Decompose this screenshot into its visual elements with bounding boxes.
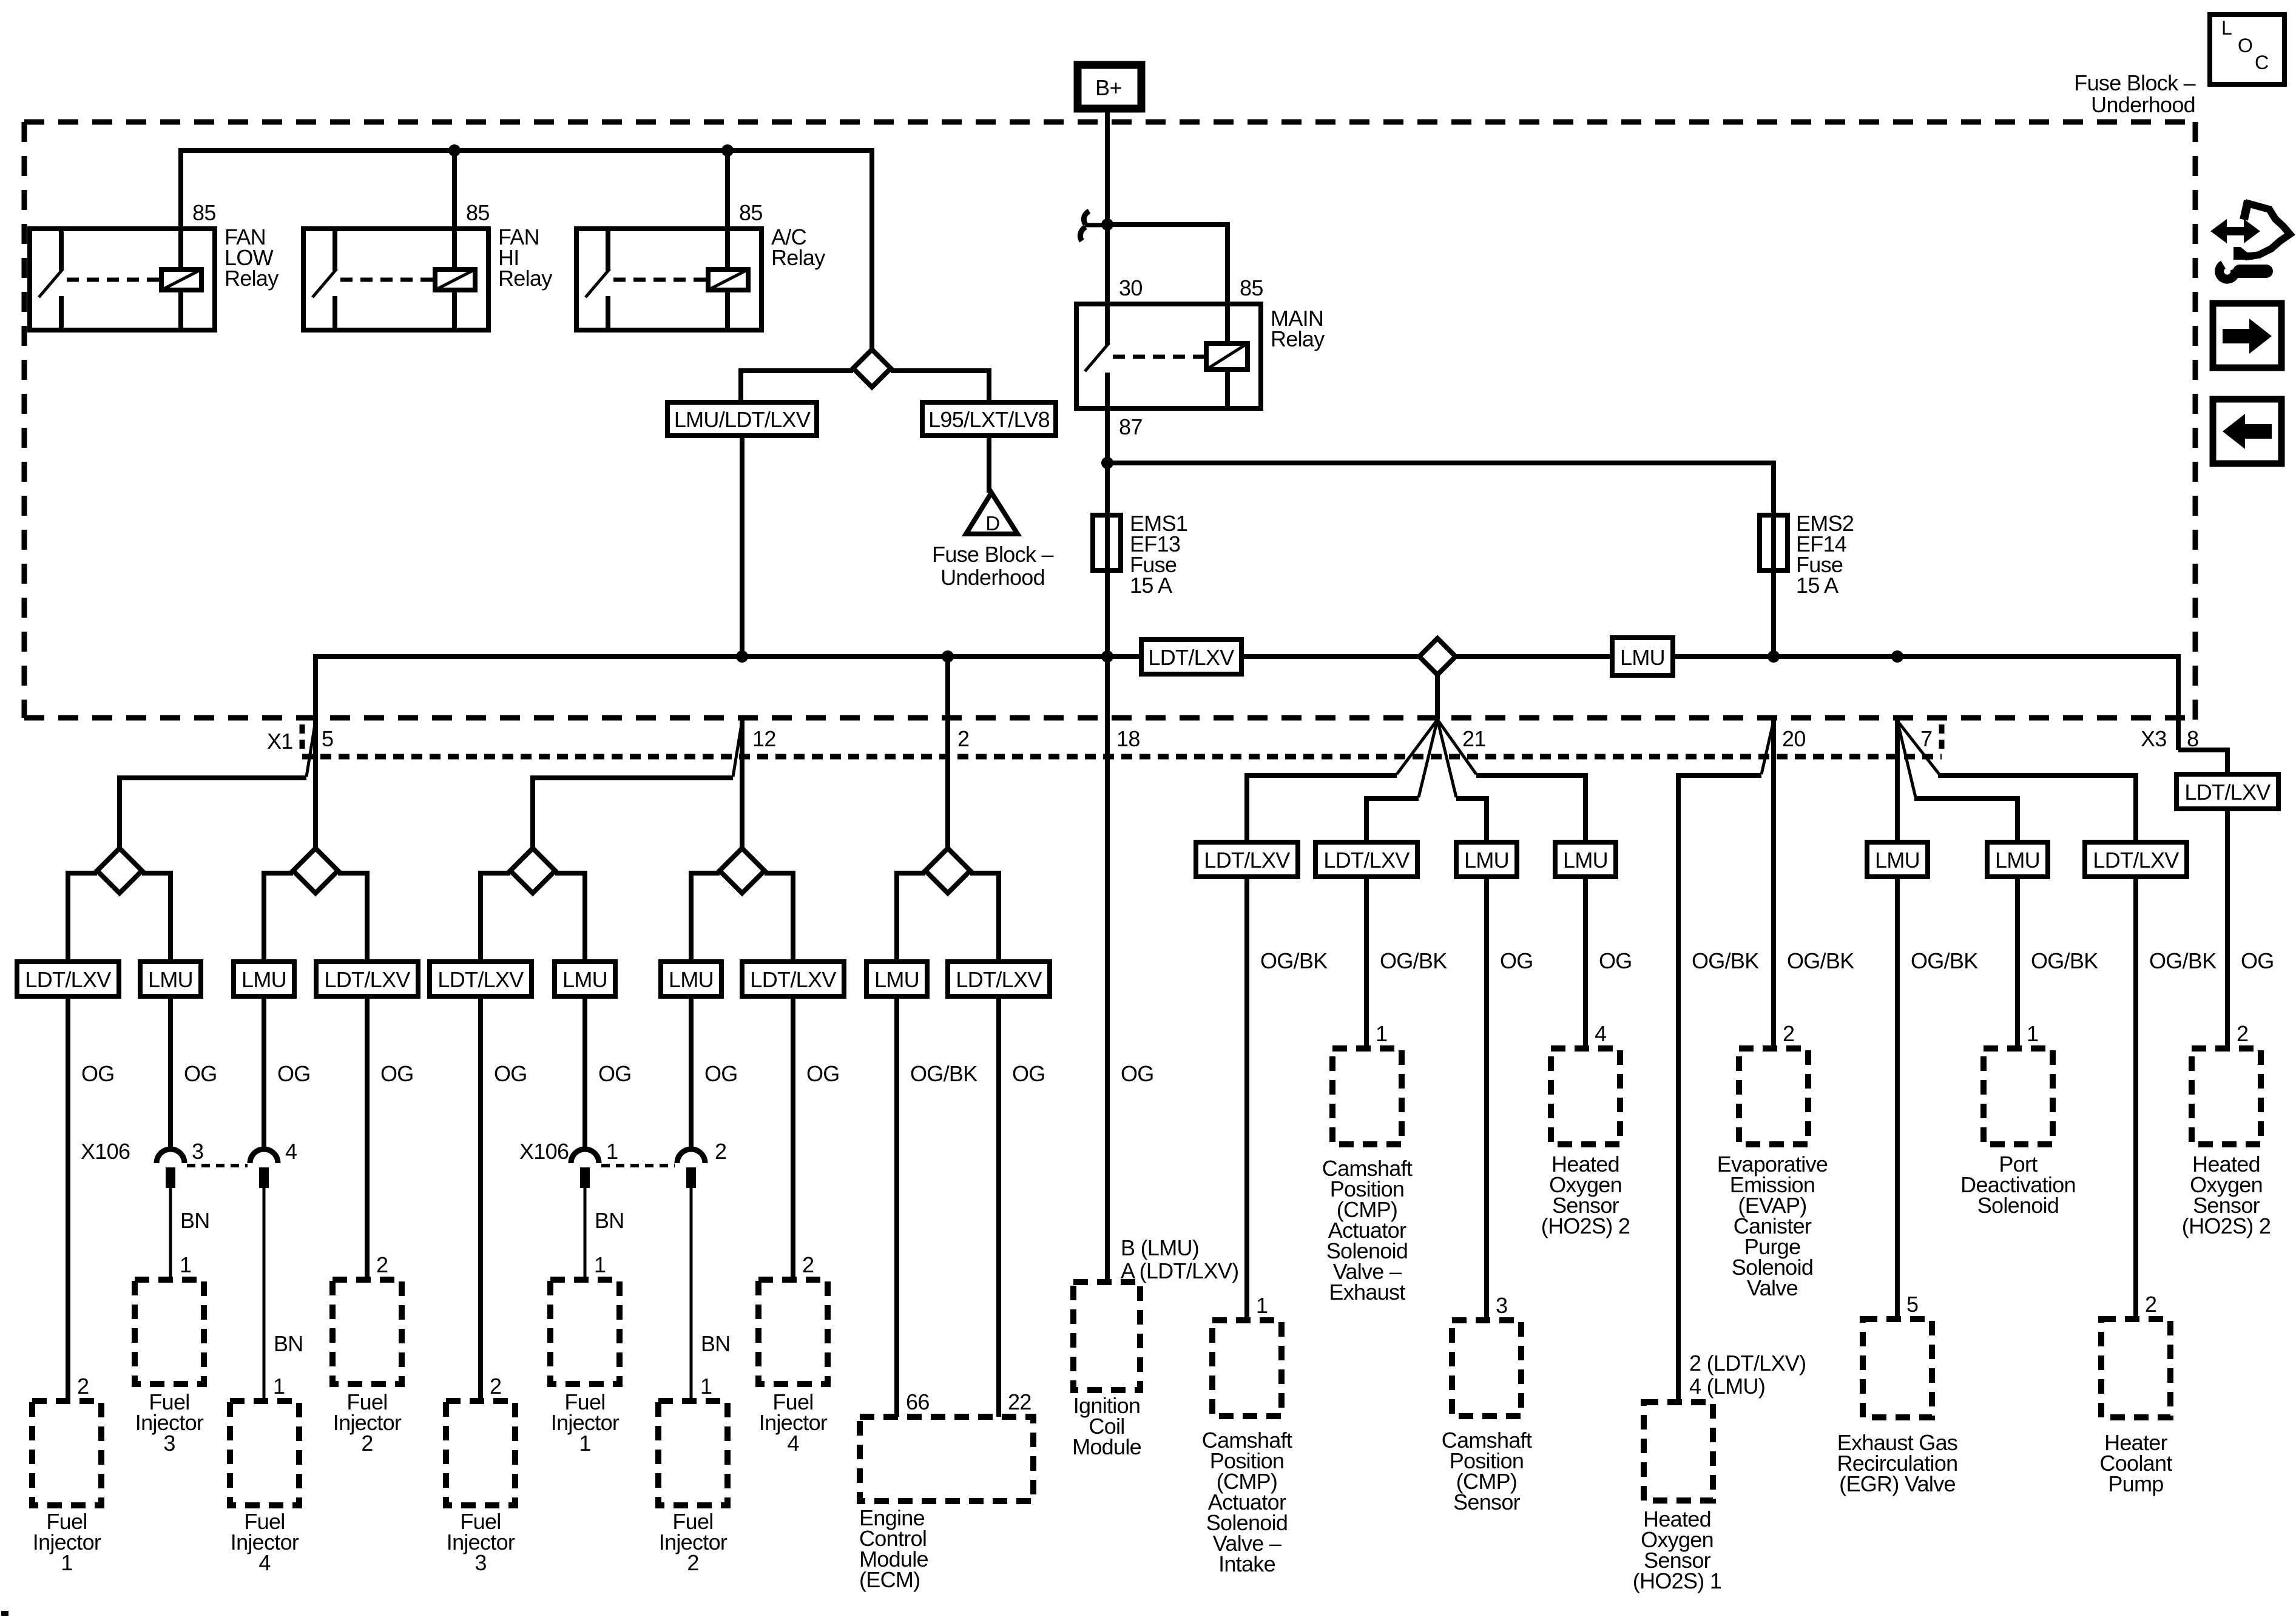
component Fuel Injector 2 (lower) [658,1401,728,1575]
svg-text:LDT/LXV: LDT/LXV [1148,645,1234,670]
wire: pin 20 drop to EVAP [1771,719,1776,1048]
wire: branch 87 to fuse EMS2 [1107,463,1774,515]
svg-text:C: C [2255,52,2268,73]
wire: pin 21 fan-out branch 3 (CMP sensor) [1437,720,1487,842]
wire OG/BK to Port Deactivation [2017,877,2098,1048]
component Fuel Injector 1 (upper) [550,1280,620,1456]
svg-text:12: 12 [752,726,776,751]
svg-text:LDT/LXV: LDT/LXV [25,967,111,992]
net label L95/LXT/LV8 [922,402,1056,436]
component Fuel Injector 2 [333,1252,402,1456]
svg-text:OG/BK: OG/BK [1787,948,1854,973]
svg-text:LMU: LMU [1620,645,1665,670]
svg-text:3: 3 [192,1139,203,1164]
svg-text:Relay: Relay [498,266,552,291]
wire: pin 5 drop to diamond group 2 [313,719,318,848]
net label LMU/LDT/LXV [667,402,817,436]
svg-text:X3: X3 [2141,726,2167,751]
component Fuel Injector 3 [135,1280,204,1456]
svg-text:1: 1 [180,1252,191,1277]
svg-text:(HO2S) 2: (HO2S) 2 [1541,1214,1630,1238]
svg-text:B (LMU): B (LMU) [1121,1235,1199,1260]
off-page triangle D (Fuse Block - Underhood) [932,493,1053,590]
node: bus junction EMS1/pin 18 [1101,650,1113,663]
wire: pin 18 drop to ignition coil module [1105,657,1110,1282]
fuse EMS2 EF14 15A [1760,511,1854,598]
wire: FAN HI relay pin 85 drop [452,150,457,231]
svg-text:8: 8 [2187,726,2198,751]
wire: L95 box to triangle D [987,436,991,493]
net label LMU (inj3) [140,962,201,996]
node: bus junction pin 7 [1891,650,1903,663]
component Camshaft Position (CMP) Actuator Solenoid Valve - Intake [1202,1320,1292,1576]
net label LMU (inj4) [234,962,294,996]
wire: pin 12 branch to diamond group 3 [533,721,742,848]
svg-text:LDT/LXV: LDT/LXV [956,967,1042,992]
svg-text:2: 2 [802,1252,814,1277]
svg-text:Solenoid: Solenoid [1977,1193,2059,1218]
svg-text:85: 85 [739,200,763,225]
net label LDT/LXV (inj4 upper) [742,962,844,996]
net label LDT/LXV (inj3 lower) [430,962,532,996]
svg-text:4: 4 [787,1431,799,1456]
svg-text:BN: BN [595,1208,624,1233]
svg-text:OG/BK: OG/BK [1911,948,1978,973]
svg-text:OG/BK: OG/BK [910,1061,977,1086]
fuse EMS1 EF13 15A [1093,511,1187,598]
net label LMU (CMP sensor) [1456,842,1517,877]
svg-text:Relay: Relay [1271,326,1325,351]
corner period mark [1,1611,8,1616]
wire: pin 21 fan-out branch 2 (CMP exhaust) [1366,720,1437,842]
svg-text:2: 2 [490,1374,501,1399]
svg-text:LMU: LMU [241,967,286,992]
node: junction top wire / FAN HI 85 [448,144,461,157]
svg-text:5: 5 [322,726,333,751]
svg-text:1: 1 [1256,1293,1268,1318]
svg-text:1: 1 [700,1374,712,1399]
connector row X1-X3 lower dashed line [302,754,1942,760]
svg-text:21: 21 [1462,726,1486,751]
svg-text:LDT/LXV: LDT/LXV [1323,848,1410,873]
wire OG to Fuel Injector 1 [66,996,70,1401]
component Port Deactivation Solenoid [1960,1048,2076,1218]
connector X106 (injectors 1/2) [519,1139,726,1188]
net label LMU (ECM) [866,962,927,996]
wire OG/BK to ECM pin 66 [894,996,899,1417]
wire: pin 12 drop to diamond group 4 [740,719,745,848]
svg-text:OG/BK: OG/BK [1692,948,1759,973]
node: junction B+ / MAIN 85 branch [1101,218,1113,231]
svg-text:66: 66 [906,1389,930,1414]
svg-text:BN: BN [701,1331,731,1356]
component Evaporative Emission (EVAP) Canister Purge Solenoid Valve [1717,1048,1828,1300]
component Fuel Injector 4 (upper) [758,1252,828,1456]
svg-text:X1: X1 [267,729,293,754]
svg-text:20: 20 [1782,726,1806,751]
svg-text:L95/LXT/LV8: L95/LXT/LV8 [928,407,1050,432]
wire: pin 7 branch to Port Deactivation Solenoid [1897,721,2017,842]
wire OG to HO2S 2 (right) [2227,809,2274,1048]
wire OG to X106 pin 4 [262,996,266,1148]
svg-text:2: 2 [715,1139,726,1164]
svg-text:3: 3 [474,1550,486,1575]
wire BN X106-2 to Fuel Injector 2 pin 1 [691,1188,731,1401]
inline connector hook at B+ feed [1085,223,1107,228]
svg-text:87: 87 [1119,414,1143,439]
svg-text:Pump: Pump [2108,1471,2163,1496]
svg-text:7: 7 [1920,726,1932,751]
svg-text:2 (LDT/LXV): 2 (LDT/LXV) [1689,1351,1806,1376]
svg-text:1: 1 [579,1431,590,1456]
svg-text:A (LDT/LXV): A (LDT/LXV) [1121,1258,1238,1283]
net label LMU (HO2S 2) [1555,842,1616,877]
svg-text:5: 5 [1906,1292,1918,1317]
wire OG to CMP sensor [1487,877,1533,1320]
component Heater Coolant Pump [2099,1319,2172,1496]
splice diamond group 3 [481,848,585,962]
main ignition feed bus [316,657,2178,750]
svg-text:LMU: LMU [874,967,919,992]
node: bus junction EMS2/pin 20 [1768,650,1780,663]
splice diamond group 2 [264,848,367,962]
svg-text:OG/BK: OG/BK [1380,948,1447,973]
svg-text:OG: OG [380,1061,414,1086]
svg-text:85: 85 [1240,275,1263,300]
svg-text:30: 30 [1119,275,1143,300]
component Heated Oxygen Sensor (HO2S) 1 [1633,1402,1721,1593]
wire OG/BK to EVAP [1783,948,1854,1046]
net label LMU on bus [1612,638,1673,675]
component Exhaust Gas Recirculation (EGR) Valve [1837,1319,1958,1496]
svg-text:OG: OG [1599,948,1632,973]
net label LDT/LXV (pin 8) [2176,774,2278,809]
svg-text:LMU/LDT/LXV: LMU/LDT/LXV [674,407,811,432]
svg-text:1: 1 [2027,1021,2038,1046]
svg-text:1: 1 [273,1374,285,1399]
net label LDT/LXV (ECM) [948,962,1050,996]
svg-text:OG: OG [184,1061,217,1086]
svg-text:LDT/LXV: LDT/LXV [750,967,836,992]
wire OG to X106 pin 3 [168,996,173,1148]
net label LMU (inj1 upper) [555,962,615,996]
svg-text:LMU: LMU [1995,848,2040,873]
svg-text:OG/BK: OG/BK [2149,948,2217,973]
wire OG/BK to CMP intake [1247,877,1328,1320]
svg-text:LDT/LXV: LDT/LXV [324,967,410,992]
svg-text:4: 4 [1595,1021,1606,1046]
svg-text:LDT/LXV: LDT/LXV [2184,780,2271,805]
wire: pin 20 branch to HO2S 1 [1678,721,1774,1402]
svg-text:4 (LMU): 4 (LMU) [1689,1374,1765,1399]
svg-text:Valve: Valve [1747,1275,1798,1300]
svg-text:4: 4 [285,1139,297,1164]
node: junction 87 / EMS2 branch [1101,457,1113,469]
svg-text:LMU: LMU [1875,848,1920,873]
svg-text:Underhood: Underhood [940,565,1045,590]
wire: B+ to MAIN relay pin 30 [1105,109,1110,304]
wire: branch to MAIN relay pin 85 [1107,224,1227,304]
svg-text:LDT/LXV: LDT/LXV [437,967,524,992]
net label LMU (Port Deactivation) [1987,842,2048,877]
relay K4 MAIN Relay [1076,275,1325,439]
svg-text:2: 2 [1783,1021,1794,1046]
svg-text:15 A: 15 A [1796,573,1838,598]
svg-text:LMU: LMU [1464,848,1509,873]
svg-text:18: 18 [1116,726,1140,751]
svg-text:Relay: Relay [225,266,279,291]
svg-text:LMU: LMU [148,967,193,992]
svg-text:X106: X106 [519,1139,569,1164]
wire OG to X106 pin 1 [582,996,587,1148]
svg-text:LMU: LMU [669,967,714,992]
svg-text:BN: BN [274,1331,303,1356]
svg-text:Exhaust: Exhaust [1329,1280,1405,1305]
svg-text:X106: X106 [81,1139,130,1164]
service icon (double arrow and wrench) [2210,201,2290,279]
wire BN X106-4 to Fuel Injector 4 pin 1 [264,1188,303,1401]
svg-text:Sensor: Sensor [1453,1490,1521,1514]
wire OG to X106 pin 2 [689,996,694,1148]
wire: pin 7 branch to Heater Coolant Pump [1897,721,2136,842]
svg-text:3: 3 [163,1431,175,1456]
svg-text:85: 85 [192,200,216,225]
svg-text:85: 85 [466,200,490,225]
wire OG to Fuel Injector 2 [365,996,370,1280]
svg-text:2: 2 [376,1252,388,1277]
wire: pin 7 drop to EGR [1895,719,1900,842]
svg-text:4: 4 [258,1550,270,1575]
svg-text:1: 1 [1376,1021,1387,1046]
wire: pin 2 drop to diamond group 5 [945,657,950,848]
wire OG to ECM pin 22 [996,996,1001,1417]
svg-text:D: D [985,512,999,535]
svg-text:Underhood: Underhood [2091,92,2195,117]
svg-text:(HO2S) 1: (HO2S) 1 [1633,1568,1721,1593]
svg-text:LMU: LMU [1563,848,1608,873]
wire OG/BK to HO2S 1 [1689,948,1806,1399]
svg-text:OG: OG [598,1061,632,1086]
component Ignition Coil Module [1072,1235,1238,1459]
svg-text:1: 1 [61,1550,72,1575]
svg-text:OG/BK: OG/BK [1260,948,1328,973]
component Fuel Injector 4 [230,1401,299,1575]
relay K2 FAN HI Relay [303,200,552,330]
Fuse Block - Underhood dashed enclosure [24,122,2196,720]
splice diamond group 4 [691,848,793,962]
wire: EMS1 to bus [1105,570,1110,657]
wire OG to Fuel Injector 4 (upper) [791,996,795,1280]
svg-text:3: 3 [1496,1293,1507,1318]
svg-text:OG: OG [2241,948,2274,973]
LOC legend box [2210,15,2284,84]
wire: EMS2 to bus [1771,570,1776,657]
relay K1 FAN LOW Relay [30,200,279,330]
svg-text:2: 2 [687,1550,698,1575]
node: junction top wire / AC 85 [721,144,734,157]
net label LDT/LXV (Heater Coolant Pump) [2085,842,2187,877]
wire: A/C relay pin 85 drop [725,150,730,231]
svg-text:22: 22 [1008,1389,1032,1414]
splice diamond group 1 [68,848,171,962]
wire OG to Fuel Injector 3 (lower) [478,996,483,1401]
svg-text:OG: OG [277,1061,311,1086]
svg-text:(ECM): (ECM) [859,1567,920,1592]
previous-page arrow box (left) [2213,399,2281,464]
net label LDT/LXV on bus [1141,640,1241,674]
svg-text:OG: OG [1500,948,1533,973]
net label LDT/LXV (inj2) [316,962,418,996]
node: bus junction pin 2 feed [942,650,954,663]
net label LDT/LXV (inj1) [17,962,119,996]
svg-text:Intake: Intake [1218,1551,1275,1576]
svg-text:LMU: LMU [562,967,607,992]
svg-text:Module: Module [1072,1434,1141,1459]
svg-text:OG: OG [1012,1061,1045,1086]
svg-text:LDT/LXV: LDT/LXV [2093,848,2179,873]
svg-text:2: 2 [77,1374,89,1399]
wire: pin 8 jog to LDT/LXV [2178,750,2227,774]
svg-text:2: 2 [2237,1021,2248,1046]
component Heated Oxygen Sensor (HO2S) 2 (right) [2182,1048,2271,1238]
splice diamond group 5 (ECM) [897,848,999,962]
net label LDT/LXV (CMP exhaust) [1315,842,1417,877]
svg-text:Fuse Block –: Fuse Block – [2074,70,2195,95]
wire: pin 21 fan-out branch 1 (CMP intake) [1247,720,1437,842]
svg-text:LDT/LXV: LDT/LXV [1204,848,1290,873]
wire: LMU/LDT/LXV box to bus [740,436,745,657]
wire: pin 21 fan-out branch 4 (HO2S 2) [1437,720,1585,842]
wire BN X106-1 to Fuel Injector 1 pin 1 [585,1188,624,1280]
node: bus junction pin 12 feed [736,650,748,663]
component Camshaft Position (CMP) Actuator Solenoid Valve - Exhaust [1322,1048,1413,1305]
wire OG/BK to EGR [1897,877,1978,1319]
net label LMU (inj2 lower) [661,962,721,996]
svg-text:B+: B+ [1095,75,1122,100]
svg-text:2: 2 [2145,1292,2156,1317]
component U1 Engine Control Module (ECM) [859,1389,1033,1592]
net label LMU (EGR) [1867,842,1928,877]
svg-text:OG: OG [81,1061,115,1086]
connector X1 end stub [300,724,305,754]
component Fuel Injector 3 (lower) [446,1374,515,1575]
svg-text:OG: OG [1121,1061,1154,1086]
svg-text:(HO2S) 2: (HO2S) 2 [2182,1214,2271,1238]
wire OG to HO2S 2 [1585,877,1632,1048]
component Camshaft Position (CMP) Sensor [1442,1320,1532,1514]
svg-text:2: 2 [361,1431,373,1456]
wire BN X106-3 to Fuel Injector 3 pin 1 [171,1188,210,1280]
relay K3 A/C Relay [576,200,825,330]
label Fuse Block - Underhood (top right) [2074,70,2195,117]
svg-text:15 A: 15 A [1130,573,1172,598]
splice diamond on bus (pin 21 feed) [1419,638,1456,720]
splice diamond engine-variant junction (top) [741,349,989,402]
svg-text:1: 1 [594,1252,606,1277]
connector X3 end stub [1939,724,1945,754]
svg-text:O: O [2238,35,2252,56]
next-page arrow box (right) [2213,303,2281,368]
B+ power terminal [1078,65,1141,109]
svg-text:OG: OG [494,1061,527,1086]
wire: relay 85 feed bus (top) [181,150,872,349]
svg-text:OG: OG [704,1061,738,1086]
svg-text:Fuse Block –: Fuse Block – [932,542,1053,567]
svg-text:(EGR) Valve: (EGR) Valve [1839,1471,1956,1496]
net label LDT/LXV (CMP intake) [1196,842,1298,877]
wire: MAIN 87 down to fuse EMS1 [1105,408,1110,515]
svg-text:BN: BN [180,1208,210,1233]
svg-text:2: 2 [957,726,969,751]
component Heated Oxygen Sensor (HO2S) 2 [1541,1048,1630,1238]
connector X106 (injectors 3/4) [81,1139,297,1188]
svg-text:Relay: Relay [771,245,825,270]
wire: pin 5 branch to diamond group 1 [120,721,316,848]
svg-text:OG/BK: OG/BK [2031,948,2098,973]
svg-text:1: 1 [606,1139,618,1164]
wire OG/BK to CMP exhaust [1366,877,1447,1048]
wire OG/BK to Heater Coolant Pump [2136,877,2217,1319]
svg-text:OG: OG [806,1061,840,1086]
svg-text:L: L [2221,17,2232,39]
component Fuel Injector 1 [32,1374,101,1575]
